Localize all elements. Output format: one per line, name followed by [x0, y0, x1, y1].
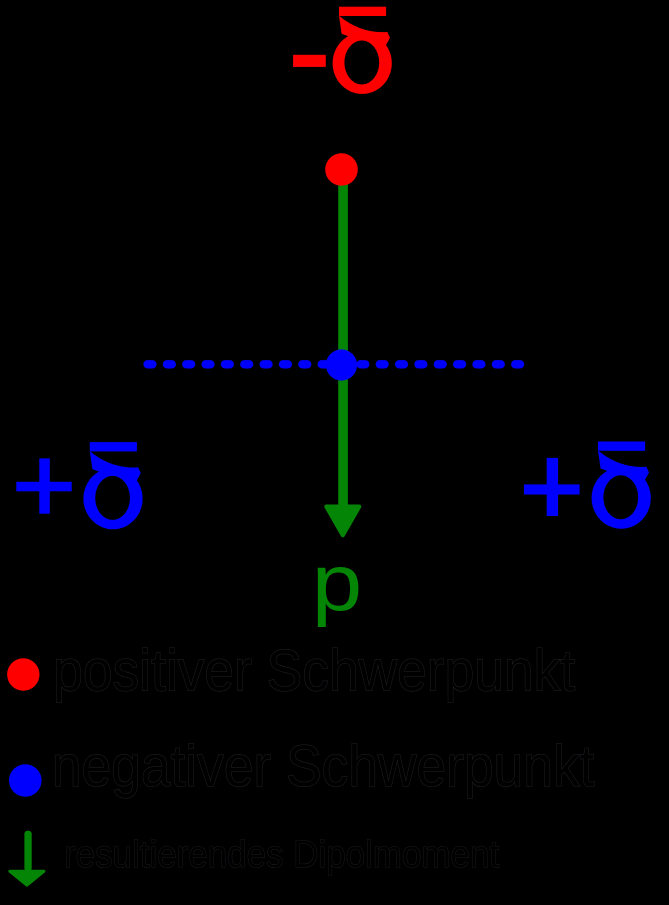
label +δ left delta — [83, 442, 142, 529]
label +δ left plus — [16, 458, 71, 513]
node: blue dot (positive charge centroid) — [326, 349, 357, 380]
svg-text:p: p — [312, 537, 362, 627]
node: red dot (negative charge centroid) — [325, 153, 358, 186]
svg-text:positiver Schwerpunkt: positiver Schwerpunkt — [53, 639, 575, 704]
legend red dot — [7, 658, 39, 690]
legend green arrow shaft — [24, 831, 31, 872]
label -δ delta — [333, 7, 392, 94]
svg-text:negativer Schwerpunkt: negativer Schwerpunkt — [52, 734, 595, 799]
svg-text:resultierendes Dipolmoment: resultierendes Dipolmoment — [64, 833, 499, 876]
wire: green vertical arrow shaft — [338, 165, 348, 505]
label +δ right delta — [592, 442, 651, 529]
label +δ right plus — [524, 458, 580, 516]
wire: blue dashed horizontal line — [148, 360, 521, 368]
legend blue dot — [9, 764, 42, 797]
legend green arrowhead — [10, 871, 44, 885]
arrowhead of dipole vector p — [326, 507, 359, 536]
label -δ minus bar — [293, 55, 326, 67]
